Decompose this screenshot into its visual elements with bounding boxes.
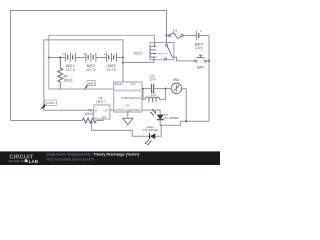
node: SW2 right junction	[208, 60, 210, 62]
battery BAT3	[106, 53, 116, 62]
wire: battery chain	[49, 57, 123, 59]
battery BAT2	[86, 53, 96, 62]
node: R1 top junction	[59, 56, 61, 58]
svg-text:LTL-307GE: LTL-307GE	[143, 128, 158, 132]
svg-text:CONTROL: CONTROL	[129, 109, 142, 112]
node: VM1 rail junction	[185, 120, 187, 122]
node: coil return junction	[122, 61, 124, 63]
battery BAT4	[195, 31, 197, 41]
node: junction at R2 left drop	[91, 121, 93, 123]
svg-text:F1: F1	[173, 29, 177, 33]
svg-text:VM1: VM1	[173, 78, 180, 82]
wire: inductor right lead riser to node	[160, 89, 166, 100]
wire: green LED right lead up to rail	[155, 125, 161, 136]
switch SW2	[195, 60, 197, 62]
svg-text:TRIGGER: TRIGGER	[115, 89, 126, 92]
svg-text:OUTPUT: OUTPUT	[115, 109, 126, 112]
svg-text:12.7 V: 12.7 V	[66, 68, 76, 72]
svg-text:100 Ω: 100 Ω	[85, 112, 94, 116]
svg-text:LTL-307EE: LTL-307EE	[163, 116, 178, 120]
wire: outer top-left loop to relay common	[11, 11, 167, 121]
timer U1 555 box	[114, 82, 142, 112]
wire: relay output to SW2	[174, 57, 195, 61]
resistor R1	[58, 58, 63, 90]
svg-text:+: +	[104, 53, 106, 57]
wire: red LED cathode drop	[160, 120, 180, 126]
svg-text:+: +	[83, 53, 85, 57]
svg-text:1.5 V: 1.5 V	[195, 46, 203, 50]
svg-text:1 μH: 1 μH	[150, 94, 156, 97]
wire: relay coil return	[123, 62, 154, 64]
wire: bottom-left rail to R2	[11, 120, 83, 122]
diode red LED	[157, 115, 164, 120]
battery BAT1	[65, 53, 75, 62]
svg-text:LM317: LM317	[96, 100, 106, 104]
svg-text:LAB: LAB	[29, 159, 39, 164]
svg-text:IN: IN	[95, 109, 98, 112]
svg-text:12.7 V: 12.7 V	[107, 68, 117, 72]
wire: DISCHARGE to C1 to VM1	[142, 88, 171, 90]
svg-text:U1: U1	[126, 103, 130, 107]
svg-text:Shaja Karim /shajakarim34) / T: Shaja Karim /shajakarim34) / Timely Disc…	[46, 153, 140, 157]
svg-text:100 Ω: 100 Ω	[64, 78, 73, 82]
svg-text:DISCHARGE: DISCHARGE	[126, 89, 141, 92]
resistor R2	[82, 118, 96, 123]
wire: fuse to BAT4	[183, 35, 196, 37]
svg-text:RESET: RESET	[115, 83, 124, 86]
ground	[123, 118, 133, 124]
relay switch	[166, 44, 168, 46]
wire: inductor left riser	[143, 89, 145, 100]
net flag InOB.1 (on trigger wire)	[87, 81, 96, 86]
op-amp U2 LM317 box	[94, 105, 110, 119]
relay coil	[152, 43, 157, 63]
svg-text:OUT: OUT	[104, 109, 110, 112]
net flag InOB.1	[45, 100, 57, 105]
svg-text:12 F: 12 F	[149, 78, 156, 82]
svg-text:12.7 V: 12.7 V	[86, 68, 96, 72]
wire: R2 to ADJ	[96, 119, 103, 121]
wire: U2 OUT to U1 OUTPUT	[110, 109, 114, 111]
node: battery left junction	[48, 56, 50, 58]
voltmeter VM1	[171, 83, 182, 94]
svg-text:+: +	[200, 30, 202, 34]
svg-text:THRESHOLD: THRESHOLD	[126, 97, 141, 100]
wire: VM1 right lead and drop	[182, 89, 187, 122]
relay RLY1 box	[150, 43, 174, 60]
capacitor C1	[152, 84, 154, 94]
wire: IN net from flag corner to U2	[44, 40, 123, 110]
svg-text:VCC: VCC	[131, 83, 136, 86]
diode green LED	[150, 133, 155, 139]
svg-text:ADJ: ADJ	[102, 116, 107, 119]
wire: right vertical from BAT4	[208, 36, 210, 122]
node: BAT3 right junction	[122, 56, 124, 58]
wire: red LED anode from CONTROL	[142, 110, 160, 115]
wire: light loop batteries to relay coil and trigger	[49, 35, 155, 89]
svg-text:+: +	[63, 53, 65, 57]
wire: bottom right rail	[181, 120, 209, 122]
wire: SW2 right stub	[206, 60, 209, 62]
svg-text:RLY1: RLY1	[134, 51, 142, 55]
footer bar	[0, 151, 220, 165]
inductor L1	[145, 97, 159, 99]
wire: down to U1 VCC	[122, 58, 124, 83]
node: fuse junction	[165, 34, 167, 36]
wire: U1 GND stub	[127, 112, 129, 118]
svg-text:InOB.1: InOB.1	[88, 84, 96, 86]
svg-text:SW2: SW2	[197, 66, 204, 70]
node: C1/VM1/inductor junction	[164, 88, 166, 90]
svg-text:http://circuitlab.com/csswt7b: http://circuitlab.com/csswt7b	[46, 158, 94, 162]
fuse F1	[167, 35, 169, 37]
wire: drop to bottom rail and to green LED	[92, 122, 150, 136]
svg-text:InOB.1: InOB.1	[47, 101, 56, 105]
